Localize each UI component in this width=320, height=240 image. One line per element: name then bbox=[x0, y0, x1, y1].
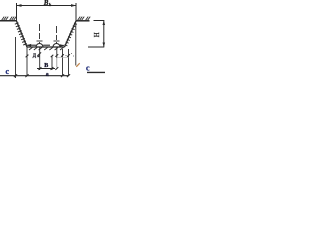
extension line right (top corner up to Bk line) bbox=[75, 3, 77, 21]
arrowhead top of H bbox=[103, 21, 106, 26]
small dot marks bbox=[66, 55, 67, 56]
ground hatching left bbox=[2, 17, 17, 21]
left slope hatch ticks (outer side) bbox=[15, 23, 27, 45]
pipe 1 centerline bbox=[39, 24, 41, 44]
pipe 2 centerline bbox=[56, 26, 58, 44]
ground hatching right bbox=[78, 17, 91, 21]
tick left of B bbox=[39, 67, 42, 70]
left slope line bbox=[17, 21, 28, 47]
svg-text:H: H bbox=[94, 32, 101, 37]
tick at x57 on B line level bbox=[55, 67, 58, 70]
bottom chain dimension line (c / a) bbox=[0, 75, 69, 77]
extension line trench bottom to H dimension bbox=[88, 46, 104, 48]
tick right of B bbox=[51, 67, 54, 70]
extension line B right bbox=[51, 56, 53, 71]
extension line below right top corner bbox=[75, 24, 77, 66]
extension line from pipe 1 axis bbox=[39, 47, 41, 70]
trench bottom line bbox=[27, 46, 65, 48]
extension line x68.5 bbox=[68, 49, 70, 76]
hatch below trench bottom bbox=[29, 47, 63, 50]
tick at x27 bbox=[25, 74, 28, 77]
tick at bottom of right extension (orange) bbox=[76, 63, 79, 67]
pipe 1 (semicircle) bbox=[36, 44, 43, 48]
pipe 2 (semicircle) bbox=[53, 44, 60, 48]
internal dimension arrowhead left (at slope foot) bbox=[26, 44, 31, 47]
tick marks level y56 bbox=[26, 52, 70, 57]
svg-text:c: c bbox=[6, 67, 10, 76]
arrowhead right of Bk bbox=[71, 4, 76, 7]
ground line right bbox=[76, 20, 90, 22]
tick at x16 bbox=[14, 74, 17, 77]
svg-text:a: a bbox=[46, 72, 49, 78]
internal dimension arrowhead right (at slope foot) bbox=[60, 44, 65, 47]
arrowhead bottom of H bbox=[103, 43, 106, 48]
dimension line c right bbox=[87, 71, 105, 73]
ground line left bbox=[0, 20, 17, 22]
pipe 2 axis crossbar bbox=[54, 40, 60, 42]
dimension line H (vertical) bbox=[103, 21, 105, 48]
extension line from left slope foot bbox=[26, 47, 28, 76]
internal dimension line segment 2 (between pipes) bbox=[43, 44, 50, 46]
tick at x68.5 bbox=[67, 74, 70, 77]
short chain line segment y57.5 (faint) bbox=[57, 56, 69, 58]
extension line below left top corner (for c dimension) bbox=[15, 37, 17, 78]
svg-text:B: B bbox=[44, 63, 48, 69]
arrowhead left of Bk bbox=[17, 4, 22, 7]
svg-text:Д: Д bbox=[33, 54, 37, 59]
svg-text:B: B bbox=[43, 0, 49, 7]
extension line left (top corner up to Bk line) bbox=[16, 3, 18, 21]
extension line of ground to H dimension bbox=[94, 20, 105, 22]
internal dimension line segment 3 bbox=[60, 44, 64, 46]
dimension line Bk (top width) bbox=[17, 5, 77, 7]
extension line x62.5 bbox=[62, 49, 64, 76]
extension line from pipe 2 axis bbox=[56, 47, 58, 58]
dimension line B bbox=[37, 68, 55, 70]
pipe 1 axis crossbar bbox=[37, 40, 43, 42]
right slope line bbox=[65, 21, 77, 47]
svg-text:н: н bbox=[37, 54, 39, 58]
tick at x62.5 bbox=[61, 74, 64, 77]
right slope hatch ticks (outer side) bbox=[65, 23, 78, 46]
svg-text:c: c bbox=[86, 63, 90, 72]
internal dimension line at trench bottom, segment 1 bbox=[27, 44, 36, 46]
